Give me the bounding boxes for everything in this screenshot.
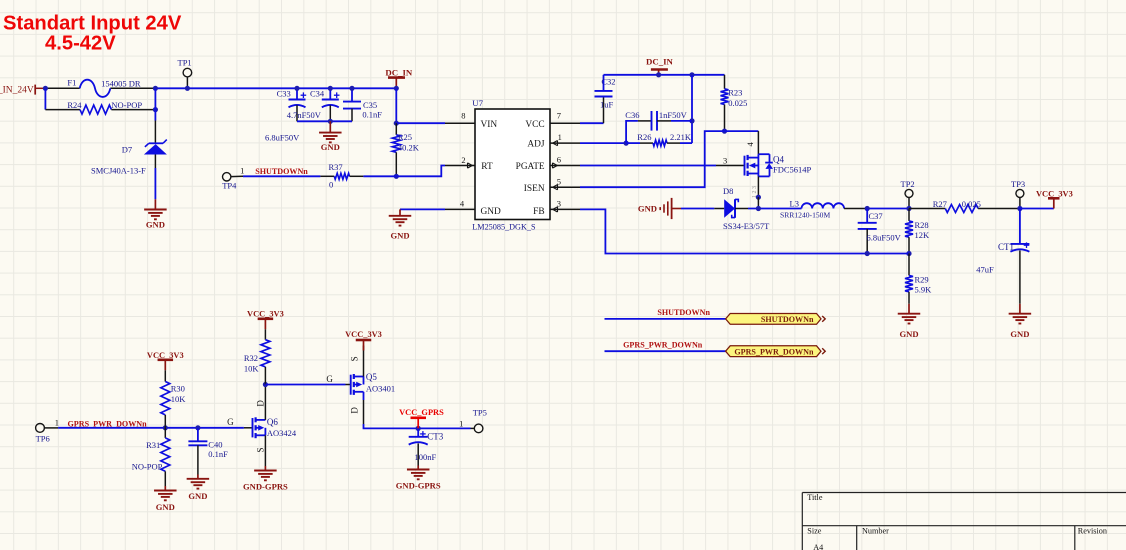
capacitor C32 xyxy=(603,97,605,124)
node R30 bottom xyxy=(163,425,168,430)
svg-text:U7: U7 xyxy=(472,98,483,108)
svg-text:SS34-E3/57T: SS34-E3/57T xyxy=(723,221,770,231)
svg-text:7: 7 xyxy=(557,110,561,120)
svg-text:C33: C33 xyxy=(277,89,291,99)
svg-text:R29: R29 xyxy=(915,274,929,284)
svg-text:C35: C35 xyxy=(363,100,377,110)
diode D8 xyxy=(714,208,724,210)
svg-text:GND: GND xyxy=(1010,329,1029,339)
svg-text:LM25085_DGK_S: LM25085_DGK_S xyxy=(472,223,536,232)
svg-text:Revision: Revision xyxy=(1078,527,1107,536)
node C37 top xyxy=(865,206,870,211)
svg-text:SRR1240-150M: SRR1240-150M xyxy=(780,211,830,220)
svg-text:NO-POP: NO-POP xyxy=(132,462,163,472)
resistor R23 xyxy=(724,75,726,89)
wire feedback rail xyxy=(580,209,909,253)
wire L3 to output node xyxy=(867,208,909,210)
wire rail down to C36/R26 xyxy=(691,75,693,143)
resistor R24 xyxy=(45,109,80,111)
svg-text:GND: GND xyxy=(321,142,340,152)
svg-text:SHUTDOWNn: SHUTDOWNn xyxy=(761,315,814,324)
svg-text:VCC_GPRS: VCC_GPRS xyxy=(399,408,444,417)
svg-text:GPRS_PWR_DOWNn: GPRS_PWR_DOWNn xyxy=(734,348,814,357)
pin 3 FB lead xyxy=(550,208,580,210)
ground GND under C40 xyxy=(197,475,199,479)
svg-text:G: G xyxy=(326,374,333,384)
resistor R31 xyxy=(164,428,166,438)
svg-text:1: 1 xyxy=(558,132,562,142)
power port VCC_3V3 R32 xyxy=(258,317,274,320)
resistor R26 xyxy=(626,142,640,144)
svg-text:A4: A4 xyxy=(813,543,823,550)
node DC_IN tap xyxy=(656,72,661,77)
svg-text:47uF: 47uF xyxy=(976,264,994,274)
svg-text:1: 1 xyxy=(55,417,59,427)
svg-text:TP4: TP4 xyxy=(222,180,237,190)
svg-text:12K: 12K xyxy=(915,230,931,240)
testpoint TP6 xyxy=(36,424,45,433)
svg-text:0.1nF: 0.1nF xyxy=(208,449,228,459)
svg-text:VCC_3V3: VCC_3V3 xyxy=(147,351,184,360)
pin 6 PGATE lead xyxy=(550,165,580,167)
svg-text:0.025: 0.025 xyxy=(962,199,981,209)
svg-text:_IN_24V: _IN_24V xyxy=(0,86,34,96)
node feedback rail right xyxy=(906,251,911,256)
wire top rail xyxy=(45,87,79,89)
pin 7 VCC lead xyxy=(550,122,580,124)
svg-text:R25: R25 xyxy=(398,132,412,142)
svg-text:AO3401: AO3401 xyxy=(366,384,395,394)
svg-text:Title: Title xyxy=(807,493,823,502)
svg-text:R24: R24 xyxy=(67,100,82,110)
svg-text:F1: F1 xyxy=(67,78,76,88)
node DC_IN rail xyxy=(394,86,399,91)
svg-text:AO3424: AO3424 xyxy=(267,428,297,438)
svg-text:4.5-42V: 4.5-42V xyxy=(45,33,116,55)
node VCC_GPRS xyxy=(416,426,421,431)
ground GND under C34 xyxy=(329,121,331,132)
capacitor C33 xyxy=(296,88,298,99)
svg-text:0.025: 0.025 xyxy=(728,98,747,108)
node C40 top xyxy=(195,425,200,430)
svg-text:FB: FB xyxy=(533,207,544,217)
pin 4 GND lead xyxy=(445,208,475,210)
pin 8 VIN lead xyxy=(445,122,475,124)
svg-text:TP1: TP1 xyxy=(178,58,192,68)
svg-text:GPRS_PWR_DOWNn: GPRS_PWR_DOWNn xyxy=(623,340,703,349)
svg-text:C37: C37 xyxy=(869,211,883,221)
node C35 top xyxy=(349,86,354,91)
svg-text:R32: R32 xyxy=(244,353,258,363)
pin 2 RT lead xyxy=(445,165,475,167)
svg-text:D: D xyxy=(350,407,360,414)
wire caps bottom rail xyxy=(297,120,352,122)
node caps bottom xyxy=(328,119,333,124)
svg-text:GND-GPRS: GND-GPRS xyxy=(243,482,288,492)
svg-text:0: 0 xyxy=(329,180,333,190)
svg-text:R31: R31 xyxy=(146,440,160,450)
wire fuse node down xyxy=(154,88,156,120)
port SHUTDOWNn xyxy=(726,314,821,325)
svg-text:1: 1 xyxy=(240,165,244,175)
wire VIN xyxy=(396,122,445,124)
wire VCC pin to C32 xyxy=(580,122,604,124)
svg-text:GND-GPRS: GND-GPRS xyxy=(396,480,441,490)
node RT junction xyxy=(394,174,399,179)
svg-text:1: 1 xyxy=(459,418,463,428)
wire R37 to RT xyxy=(363,175,396,177)
svg-text:2.21K: 2.21K xyxy=(670,132,692,142)
svg-text:VCC_3V3: VCC_3V3 xyxy=(1036,189,1073,198)
svg-text:R27: R27 xyxy=(933,199,947,209)
svg-text:40.2K: 40.2K xyxy=(398,143,420,153)
node C37 bottom xyxy=(865,251,870,256)
svg-text:VCC_3V3: VCC_3V3 xyxy=(345,330,382,339)
svg-text:10K: 10K xyxy=(171,394,187,404)
svg-text:FDC5614P: FDC5614P xyxy=(773,164,812,174)
wire DC_IN rail top right xyxy=(604,74,725,76)
power port VCC_3V3 R30 xyxy=(158,358,174,361)
resistor R30 xyxy=(164,370,166,381)
resistor R28 xyxy=(908,209,910,221)
svg-text:SHUTDOWNn: SHUTDOWNn xyxy=(657,308,710,317)
node F1 out xyxy=(153,86,158,91)
ground GND under R29 xyxy=(908,304,910,314)
svg-text:G: G xyxy=(227,417,234,427)
pin 1 ADJ lead xyxy=(550,142,580,144)
capacitor C36 xyxy=(638,120,652,122)
svg-text:GND: GND xyxy=(638,204,657,214)
ground GND under D7 xyxy=(154,199,156,209)
svg-text:L3: L3 xyxy=(790,198,799,208)
wire Q6 drain xyxy=(264,385,266,420)
ground GND under U7 xyxy=(399,209,401,215)
node rail to ADJ network xyxy=(689,72,694,77)
port GPRS_PWR_DOWNn xyxy=(726,346,821,357)
svg-text:6.8uF50V: 6.8uF50V xyxy=(867,232,902,242)
svg-text:VCC: VCC xyxy=(525,120,544,130)
wire to VCC_3V3 xyxy=(1020,208,1054,210)
svg-text:SMCJ40A-13-F: SMCJ40A-13-F xyxy=(91,165,146,175)
svg-text:TP5: TP5 xyxy=(473,408,487,418)
net label GPRS_PWR_DOWNn port wire xyxy=(605,350,726,352)
svg-text:D7: D7 xyxy=(122,144,132,154)
net label SHUTDOWNn port wire xyxy=(605,318,726,320)
svg-text:S: S xyxy=(350,356,360,361)
svg-text:DC_IN: DC_IN xyxy=(646,57,674,67)
wire Q6 drain to Q5 gate xyxy=(265,384,345,386)
capacitor CT1 xyxy=(1019,209,1021,244)
resistor R27 xyxy=(909,208,945,210)
power port VCC_3V3 Q5 xyxy=(356,339,372,342)
svg-text:Size: Size xyxy=(807,527,821,536)
node R24 out xyxy=(153,107,158,112)
inductor L3 xyxy=(802,203,845,208)
resistor R37 xyxy=(320,175,334,177)
svg-text:0.1nF: 0.1nF xyxy=(362,110,382,120)
svg-text:6.8uF50V: 6.8uF50V xyxy=(265,133,300,143)
transistor Q5 xyxy=(350,375,352,395)
svg-text:SHUTDOWNn: SHUTDOWNn xyxy=(255,167,308,176)
node C34 top xyxy=(328,86,333,91)
svg-text:10K: 10K xyxy=(244,364,260,374)
ground GND-GPRS under CT3 xyxy=(417,466,419,470)
node switch xyxy=(756,206,761,211)
svg-text:ADJ: ADJ xyxy=(527,140,545,150)
svg-text:TP2: TP2 xyxy=(901,179,915,189)
ground GND under CT1 xyxy=(1019,304,1021,314)
svg-text:8: 8 xyxy=(461,110,465,120)
svg-text:TP3: TP3 xyxy=(1011,179,1025,189)
svg-text:C32: C32 xyxy=(601,77,615,87)
svg-text:D8: D8 xyxy=(723,186,733,196)
svg-text:PGATE: PGATE xyxy=(516,162,545,172)
testpoint TP4 xyxy=(223,173,231,181)
svg-text:R28: R28 xyxy=(915,220,929,230)
svg-text:Number: Number xyxy=(862,527,889,536)
wire ISEN sense xyxy=(580,131,725,187)
svg-text:C36: C36 xyxy=(625,110,639,120)
wire GPRS_PWR_DOWNn row xyxy=(58,427,244,429)
capacitor C34 xyxy=(329,88,331,99)
wire rail down to VIN xyxy=(395,88,397,123)
svg-text:1nF50V: 1nF50V xyxy=(659,110,688,120)
resistor R32 xyxy=(264,329,266,339)
svg-text:Q6: Q6 xyxy=(267,417,278,427)
svg-text:154005 DR: 154005 DR xyxy=(101,78,141,88)
transistor Q4 xyxy=(716,165,745,167)
node R23 bottom xyxy=(722,129,727,134)
svg-text:C34: C34 xyxy=(310,89,325,99)
svg-text:100nF: 100nF xyxy=(415,452,437,462)
svg-text:NO-POP: NO-POP xyxy=(111,100,142,110)
svg-text:GND: GND xyxy=(899,329,918,339)
svg-text:Q4: Q4 xyxy=(773,155,784,165)
svg-text:TP6: TP6 xyxy=(36,434,50,444)
capacitor C37 xyxy=(866,209,868,223)
svg-text:ISEN: ISEN xyxy=(524,184,545,194)
svg-text:R37: R37 xyxy=(329,162,343,172)
wire R23 to Q4 xyxy=(725,130,759,132)
svg-text:6: 6 xyxy=(557,154,561,164)
op-amp U7 LM25085 body xyxy=(475,109,550,220)
capacitor C35 xyxy=(351,88,353,101)
svg-text:CT1: CT1 xyxy=(998,242,1014,252)
node ADJ junction xyxy=(624,141,629,146)
node C33 top xyxy=(294,86,299,91)
svg-text:GND: GND xyxy=(146,220,165,230)
wire Q6 source xyxy=(264,435,266,466)
svg-text:VCC_3V3: VCC_3V3 xyxy=(247,310,284,319)
wire PGATE to gate xyxy=(580,165,716,167)
wire Q5 drain to TP5 xyxy=(363,392,365,400)
wire switch node xyxy=(735,208,748,210)
svg-text:S: S xyxy=(256,447,266,452)
title block frame xyxy=(802,492,1126,494)
capacitor CT3 xyxy=(417,428,419,436)
svg-text:4: 4 xyxy=(745,142,755,147)
svg-text:2: 2 xyxy=(461,155,465,165)
wire TP4 to R37 xyxy=(243,175,320,177)
node Q6 drain xyxy=(263,382,268,387)
svg-text:GND: GND xyxy=(156,502,175,512)
svg-text:Standart Input 24V: Standart Input 24V xyxy=(3,13,182,35)
svg-text:GND: GND xyxy=(390,231,409,241)
svg-text:R23: R23 xyxy=(728,87,742,97)
resistor R25 xyxy=(395,123,397,135)
svg-text:CT3: CT3 xyxy=(427,431,444,441)
ground GND under R31 xyxy=(164,486,166,491)
svg-text:4: 4 xyxy=(460,199,465,209)
fuse F1 xyxy=(80,80,111,97)
node TP3 xyxy=(1017,206,1022,211)
svg-text:VIN: VIN xyxy=(481,120,498,130)
svg-text:GND: GND xyxy=(188,491,207,501)
capacitor C40 xyxy=(197,428,199,442)
wire Q5 source xyxy=(363,346,365,377)
svg-text:4.7nF50V: 4.7nF50V xyxy=(287,110,322,120)
pin 5 ISEN lead xyxy=(550,186,580,188)
node input junction xyxy=(43,86,48,91)
node output xyxy=(906,206,911,211)
svg-text:R26: R26 xyxy=(637,132,651,142)
svg-text:3: 3 xyxy=(723,156,727,166)
svg-text:GND: GND xyxy=(481,207,502,217)
testpoint TP5 xyxy=(471,427,475,429)
wire GND to D8 anode xyxy=(681,208,714,210)
diode D7 xyxy=(154,121,156,144)
node VIN branch xyxy=(394,121,399,126)
svg-text:RT: RT xyxy=(481,162,493,172)
ground GND-GPRS under Q6 xyxy=(264,466,266,471)
resistor R29 xyxy=(908,254,910,276)
svg-text:R30: R30 xyxy=(171,383,185,393)
wire ADJ up to C36 xyxy=(626,121,638,143)
wire D7 to ground xyxy=(154,168,156,199)
svg-text:1uF: 1uF xyxy=(600,100,614,110)
node Q4 drain pins xyxy=(756,195,761,200)
svg-text:5.9K: 5.9K xyxy=(915,284,933,294)
svg-text:Q5: Q5 xyxy=(366,372,377,382)
node TP1 xyxy=(185,86,190,91)
node C36 right xyxy=(689,118,694,123)
svg-text:D: D xyxy=(256,400,266,407)
wire R24 branch left xyxy=(44,88,46,109)
wire ADJ pin xyxy=(580,142,626,144)
svg-text:DC_IN: DC_IN xyxy=(385,68,413,78)
wire GND pin xyxy=(400,208,445,210)
